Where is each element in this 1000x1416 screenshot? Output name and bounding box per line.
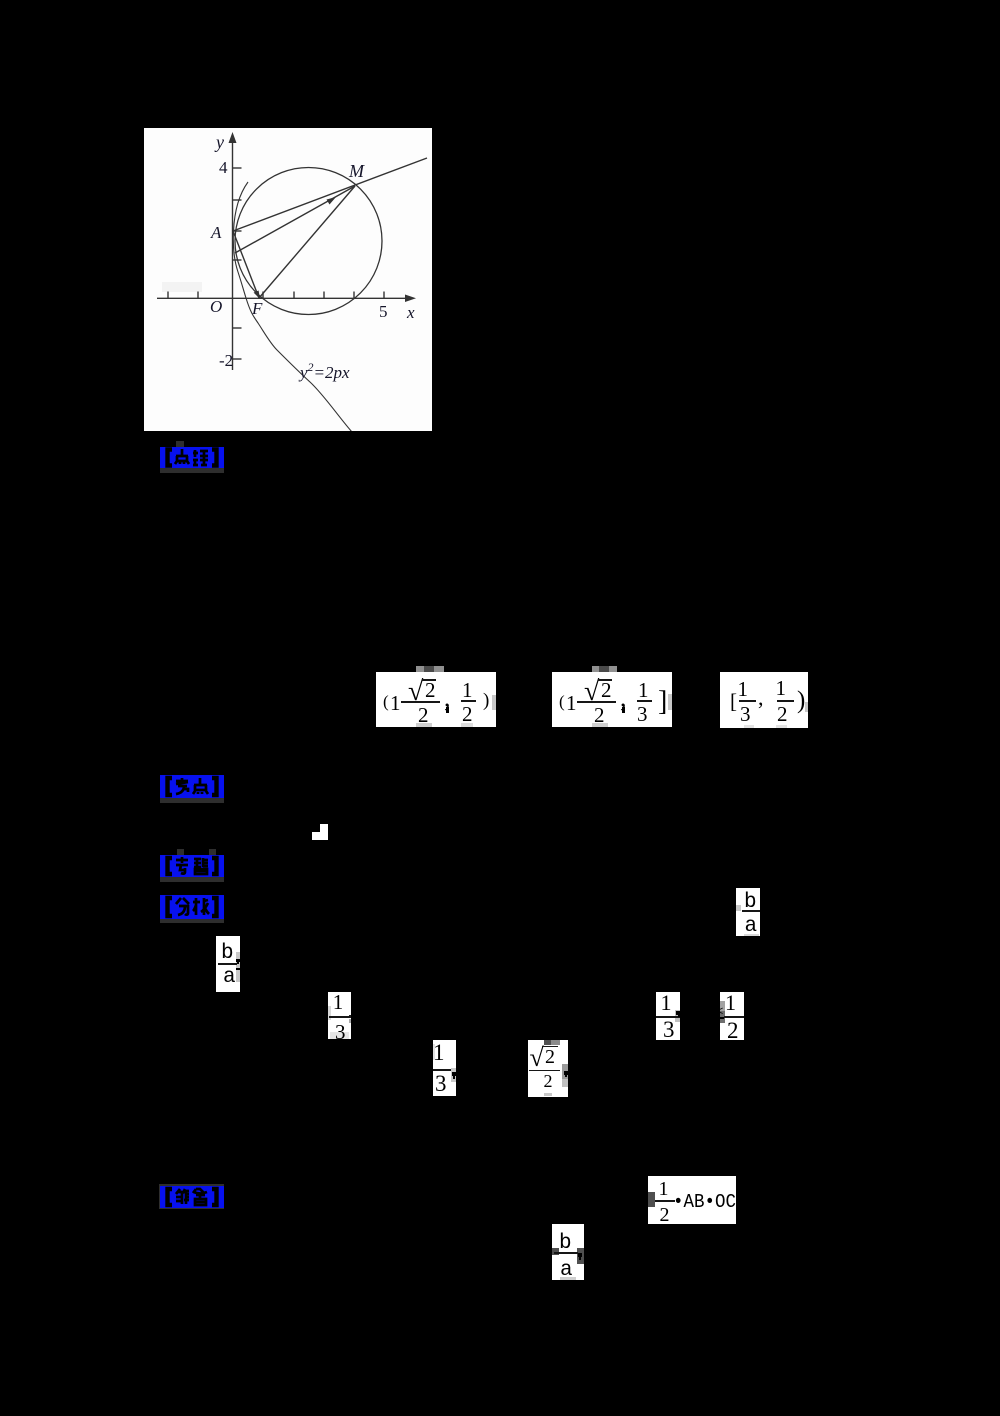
svg-text:M: M [348, 161, 365, 181]
svg-text:y: y [214, 132, 224, 152]
svg-text:F: F [251, 299, 263, 318]
svg-text:-2: -2 [219, 351, 233, 370]
svg-text:4: 4 [219, 158, 228, 177]
svg-text:5: 5 [379, 302, 388, 321]
svg-text:O: O [210, 297, 222, 316]
svg-text:x: x [406, 303, 415, 322]
svg-text:y2=2px: y2=2px [298, 360, 350, 382]
svg-text:A: A [210, 223, 222, 242]
